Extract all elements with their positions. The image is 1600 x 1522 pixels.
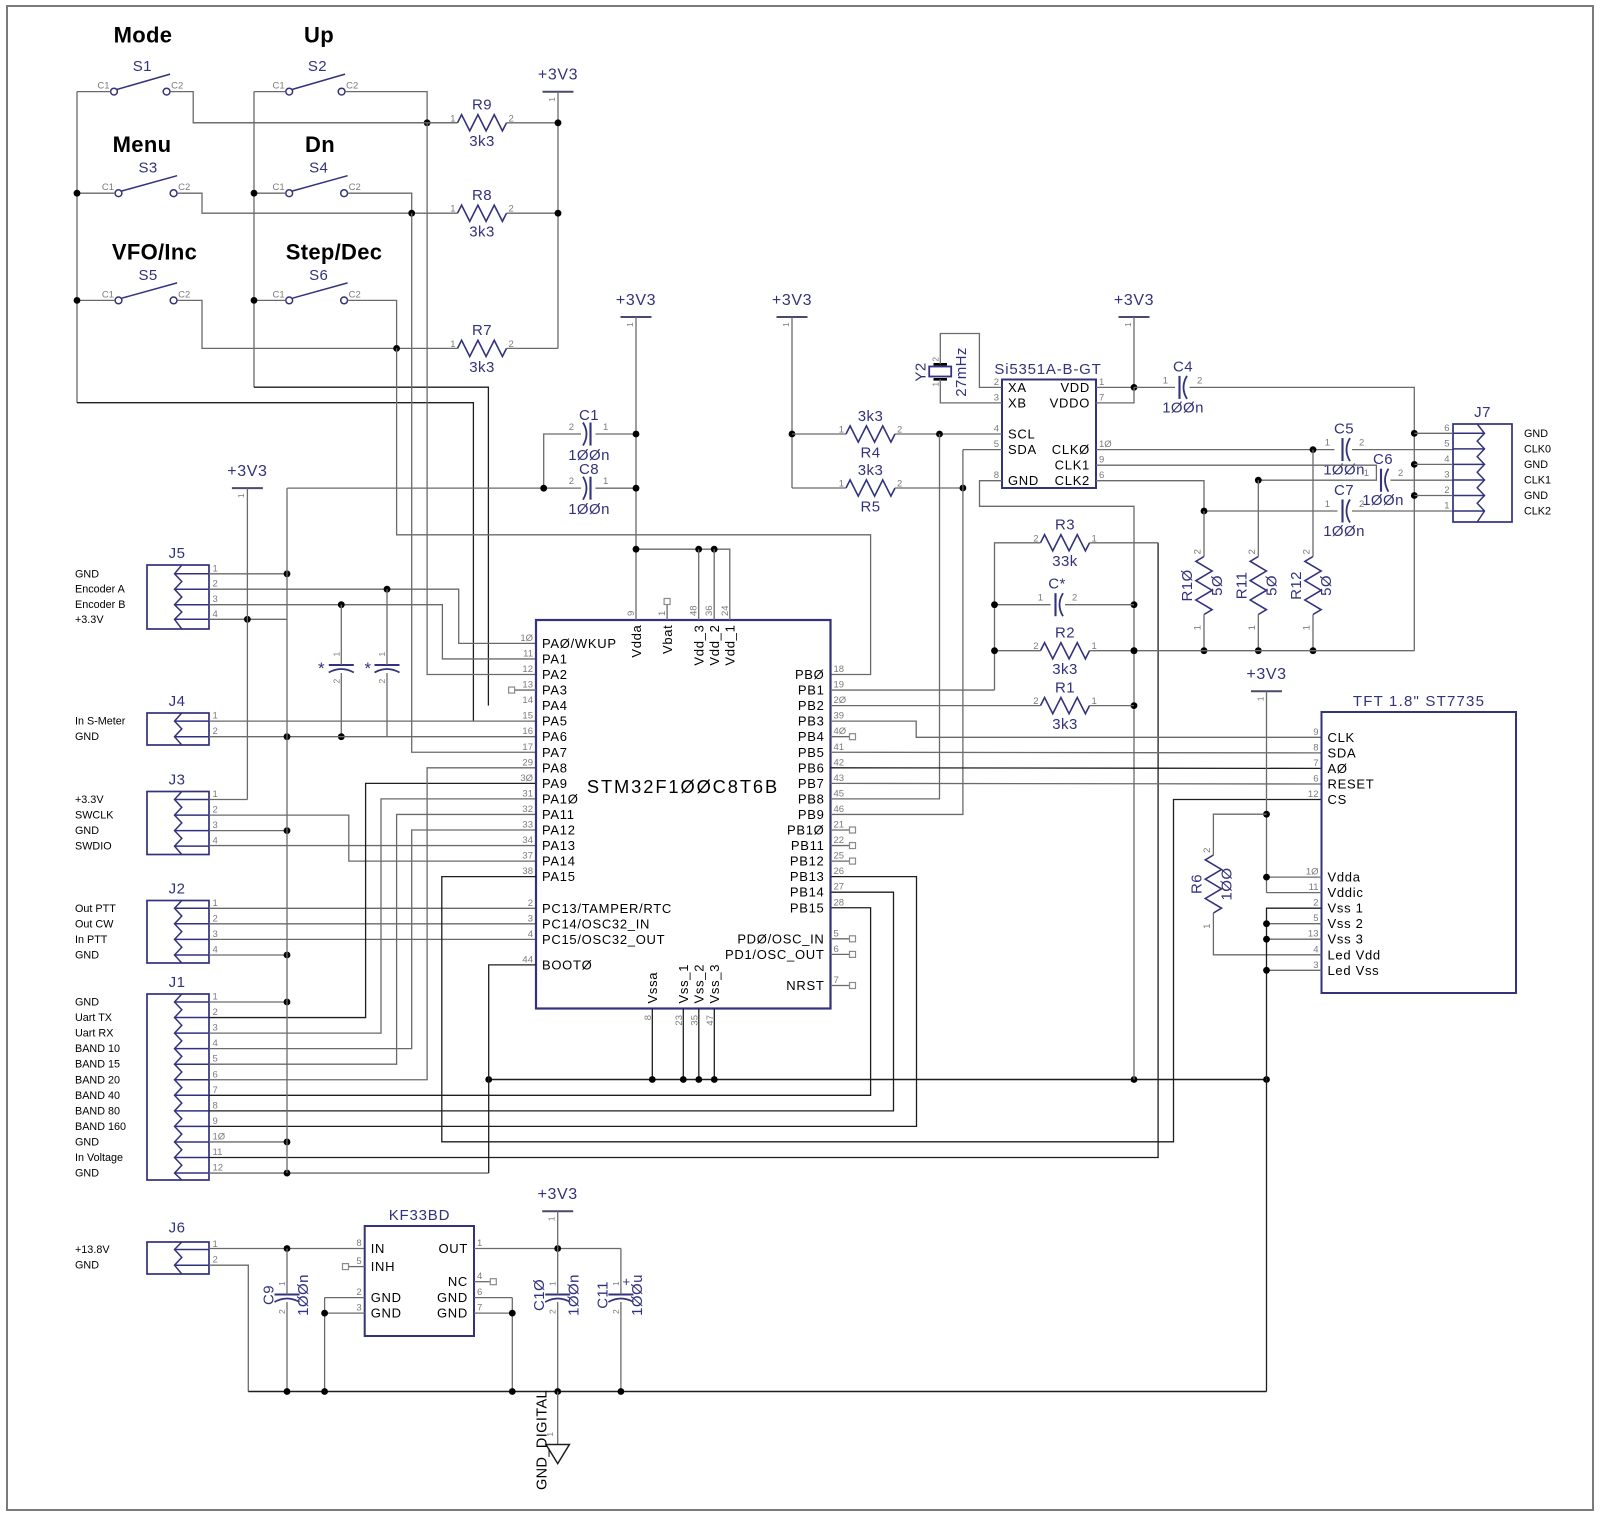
junction SCL / PB8 column bbox=[936, 431, 943, 438]
svg-text:GND: GND bbox=[75, 731, 99, 743]
junction GND column / R1 bbox=[1131, 702, 1138, 709]
svg-text:4: 4 bbox=[213, 1038, 218, 1049]
wire S4 C2 drop bbox=[348, 193, 412, 213]
wire SDA pin jog bbox=[963, 449, 1002, 451]
junction C7 row / R10 bbox=[1201, 508, 1208, 515]
svg-text:C2: C2 bbox=[171, 81, 183, 92]
svg-text:1: 1 bbox=[213, 898, 218, 909]
junction C1/+3V3 bbox=[633, 431, 640, 438]
svg-text:Vdd_2: Vdd_2 bbox=[707, 625, 722, 666]
svg-text:J6: J6 bbox=[169, 1220, 186, 1237]
svg-text:J7: J7 bbox=[1474, 404, 1491, 421]
svg-text:PA1: PA1 bbox=[542, 651, 568, 666]
junction +3V3/R9 bbox=[555, 119, 562, 126]
svg-text:Encoder B: Encoder B bbox=[75, 599, 125, 611]
wire J3 pin1 +3.3V bbox=[209, 799, 247, 801]
svg-text:BOOTØ: BOOTØ bbox=[542, 957, 592, 972]
svg-text:2: 2 bbox=[1359, 499, 1364, 510]
svg-text:Uart TX: Uart TX bbox=[75, 1012, 112, 1024]
junction IN / C9 bbox=[284, 1245, 291, 1252]
svg-text:SWDIO: SWDIO bbox=[75, 841, 112, 853]
svg-text:9: 9 bbox=[213, 1116, 218, 1127]
svg-text:PB7: PB7 bbox=[798, 776, 825, 791]
svg-text:PC13/TAMPER/RTC: PC13/TAMPER/RTC bbox=[542, 901, 672, 916]
svg-text:C2: C2 bbox=[178, 182, 190, 193]
svg-text:GND: GND bbox=[75, 568, 99, 580]
svg-text:PB14: PB14 bbox=[790, 885, 825, 900]
junction R10 / GND rail bbox=[1201, 647, 1208, 654]
svg-text:1: 1 bbox=[1202, 923, 1213, 929]
wire SWDIO to PA13 bbox=[209, 845, 536, 847]
svg-text:1: 1 bbox=[603, 476, 608, 487]
wire S1 C1 to column A bbox=[77, 91, 111, 93]
wire J7 pin2 GND bbox=[1414, 495, 1453, 497]
svg-text:R7: R7 bbox=[472, 322, 492, 339]
svg-text:3: 3 bbox=[1444, 470, 1449, 481]
wire KF GND3 bbox=[325, 1312, 365, 1314]
pin INH stub unconnected bbox=[349, 1266, 365, 1268]
svg-text:Vss_2: Vss_2 bbox=[692, 964, 707, 1004]
wire BAND 80 to PB14 bbox=[209, 892, 894, 1111]
svg-text:Step/Dec: Step/Dec bbox=[286, 239, 383, 264]
svg-text:Led Vdd: Led Vdd bbox=[1328, 947, 1381, 962]
wire Vss2 bbox=[1267, 923, 1322, 925]
svg-text:1ØØ: 1ØØ bbox=[1218, 868, 1235, 901]
svg-text:5: 5 bbox=[213, 1054, 218, 1065]
svg-text:1: 1 bbox=[547, 97, 557, 102]
wire Encoder B to PA1 bbox=[209, 605, 536, 659]
junction GND column / R2 bbox=[1131, 647, 1138, 654]
svg-text:C1: C1 bbox=[579, 407, 599, 424]
wire Vss_1 stub bbox=[682, 1009, 684, 1080]
wire J4 GND to PA6 row bbox=[209, 736, 536, 738]
svg-text:CLKØ: CLKØ bbox=[1052, 442, 1090, 457]
svg-text:4: 4 bbox=[1313, 944, 1318, 955]
wire SWCLK to PA14 bbox=[209, 815, 536, 861]
svg-text:7: 7 bbox=[834, 975, 839, 986]
wire J5 pin4 +3.3V bbox=[209, 618, 287, 620]
svg-text:32: 32 bbox=[522, 804, 533, 815]
wire R7 net to PB0 bbox=[397, 348, 871, 674]
svg-text:GND: GND bbox=[371, 1290, 402, 1305]
wire R5 row bbox=[792, 487, 846, 489]
wire S1 C2 to R9 row bbox=[170, 92, 457, 123]
wire Uart TX to PA9 bbox=[209, 783, 536, 1017]
svg-text:PB9: PB9 bbox=[798, 807, 825, 822]
svg-text:1ØØn: 1ØØn bbox=[1162, 399, 1204, 416]
svg-text:11: 11 bbox=[1309, 882, 1319, 893]
wire In Voltage to R3 bbox=[209, 543, 1158, 1158]
junction J1 pin10 / GND column bbox=[284, 1139, 291, 1146]
wire CLK0 row bbox=[1096, 449, 1335, 451]
svg-text:CLK0: CLK0 bbox=[1524, 443, 1551, 455]
svg-text:33: 33 bbox=[522, 820, 533, 831]
junction rail/C9 bbox=[284, 1388, 291, 1395]
svg-text:Vss_1: Vss_1 bbox=[676, 964, 691, 1004]
svg-text:IN: IN bbox=[371, 1241, 385, 1256]
svg-text:3: 3 bbox=[213, 594, 218, 605]
svg-text:1ØØn: 1ØØn bbox=[1362, 492, 1404, 509]
svg-text:7: 7 bbox=[1099, 392, 1104, 403]
svg-text:GND: GND bbox=[437, 1290, 468, 1305]
pin NC stub unconnected bbox=[474, 1281, 490, 1283]
svg-text:BAND 10: BAND 10 bbox=[75, 1043, 120, 1055]
svg-text:PB1Ø: PB1Ø bbox=[787, 823, 824, 838]
wire C* encB bottom bbox=[340, 673, 342, 737]
svg-text:S5: S5 bbox=[138, 267, 157, 284]
wire C8 pin2 row bbox=[287, 487, 581, 489]
svg-text:GND: GND bbox=[75, 997, 99, 1009]
svg-text:1Ø: 1Ø bbox=[1099, 439, 1112, 450]
svg-text:4Ø: 4Ø bbox=[834, 726, 847, 737]
svg-text:PA11: PA11 bbox=[542, 807, 575, 822]
svg-text:SDA: SDA bbox=[1328, 745, 1357, 760]
svg-text:29: 29 bbox=[522, 757, 533, 768]
junction R8 row / PA7 column bbox=[408, 210, 415, 217]
wire C10 bottom bbox=[557, 1302, 559, 1392]
junction OUT / +3V3 / C10 bbox=[554, 1245, 561, 1252]
svg-text:R11: R11 bbox=[1233, 572, 1250, 600]
svg-text:S6: S6 bbox=[309, 267, 328, 284]
svg-text:2: 2 bbox=[1444, 485, 1449, 496]
wire R6 pin2 bbox=[1213, 814, 1266, 855]
junction GND bus bbox=[711, 1076, 718, 1083]
wire R11 bottom bbox=[1257, 615, 1259, 651]
junction Vdd rail / Vdda bbox=[633, 546, 640, 553]
svg-text:PA8: PA8 bbox=[542, 760, 568, 775]
svg-text:+13.8V: +13.8V bbox=[75, 1244, 110, 1256]
svg-text:OUT: OUT bbox=[438, 1241, 468, 1256]
svg-text:C6: C6 bbox=[1373, 451, 1393, 468]
svg-text:+3V3: +3V3 bbox=[1114, 292, 1154, 309]
svg-text:1Ø: 1Ø bbox=[1306, 867, 1319, 878]
junction C6 row / R11 bbox=[1255, 477, 1262, 484]
svg-text:+3.3V: +3.3V bbox=[75, 794, 104, 806]
junction GND bus bbox=[1263, 1076, 1270, 1083]
junction C* encB / GND row bbox=[338, 733, 345, 740]
junction C*/PB1 node bbox=[991, 601, 998, 608]
svg-text:15: 15 bbox=[522, 711, 533, 722]
junction CLK0 / R12 bbox=[1310, 446, 1317, 453]
svg-text:1ØØn: 1ØØn bbox=[566, 1274, 583, 1316]
wire R12 top bbox=[1312, 450, 1314, 557]
wire BAND 40 to PB15 bbox=[209, 908, 871, 1096]
pin PD1 stub unconnected bbox=[831, 953, 850, 955]
svg-text:XB: XB bbox=[1008, 395, 1027, 410]
svg-text:1Ø: 1Ø bbox=[213, 1131, 226, 1142]
svg-text:R2: R2 bbox=[1055, 625, 1075, 642]
wire Vssa stub bbox=[651, 1009, 653, 1080]
wire S2 C2 drop bbox=[345, 92, 427, 123]
svg-text:Uart RX: Uart RX bbox=[75, 1028, 113, 1040]
junction R11 / GND rail bbox=[1255, 647, 1262, 654]
junction GND bus bbox=[695, 1076, 702, 1083]
svg-text:Vss 2: Vss 2 bbox=[1328, 916, 1364, 931]
capacitor C5 bbox=[1341, 438, 1343, 461]
svg-text:3: 3 bbox=[213, 1023, 218, 1034]
svg-text:2: 2 bbox=[377, 678, 387, 683]
switch S5 bbox=[115, 297, 122, 304]
capacitor C6 bbox=[1380, 469, 1382, 492]
junction column B / S6 bbox=[251, 297, 258, 304]
svg-text:2: 2 bbox=[1193, 549, 1204, 555]
svg-text:VDD: VDD bbox=[1060, 380, 1090, 395]
svg-text:1: 1 bbox=[545, 1431, 555, 1436]
capacitor C10 bbox=[545, 1293, 570, 1295]
IC U2 Si5351A-B-GT box bbox=[1002, 380, 1096, 489]
junction GND vert / J7 pin2 bbox=[1411, 492, 1418, 499]
svg-text:6: 6 bbox=[1099, 470, 1104, 481]
svg-text:C1: C1 bbox=[97, 81, 109, 92]
capacitor C4 bbox=[1178, 376, 1180, 399]
wire PB7 to TFT RESET bbox=[831, 782, 1322, 785]
svg-text:C9: C9 bbox=[261, 1285, 278, 1305]
switch S2 bbox=[286, 88, 293, 95]
svg-text:34: 34 bbox=[522, 835, 533, 846]
svg-text:2: 2 bbox=[994, 377, 999, 388]
connector J6 bbox=[147, 1242, 209, 1274]
svg-text:25: 25 bbox=[834, 851, 845, 862]
wire column A to PA5 column bbox=[77, 403, 473, 721]
svg-text:C1: C1 bbox=[273, 289, 285, 300]
wire J6 pin1 to IN bbox=[209, 1248, 365, 1250]
junction R5 / SDA column bbox=[960, 485, 967, 492]
svg-text:6: 6 bbox=[477, 1287, 482, 1298]
svg-text:PA1Ø: PA1Ø bbox=[542, 791, 579, 806]
pin PB11 stub unconnected bbox=[831, 845, 850, 847]
svg-text:31: 31 bbox=[522, 788, 533, 799]
wire Vss_2 stub bbox=[698, 1009, 700, 1080]
wire C10 top bbox=[557, 1249, 559, 1295]
wire J1 GND pin10 bbox=[209, 1141, 287, 1143]
svg-text:Dn: Dn bbox=[305, 132, 335, 157]
svg-text:2: 2 bbox=[569, 422, 574, 433]
capacitor C9 bbox=[275, 1293, 300, 1295]
svg-text:BAND 20: BAND 20 bbox=[75, 1074, 120, 1086]
junction column B / S4 bbox=[251, 190, 258, 197]
wire R5 pin2 bbox=[895, 487, 963, 489]
wire C4 pin1 bbox=[1134, 386, 1175, 388]
svg-text:PA15: PA15 bbox=[542, 869, 576, 884]
svg-text:1: 1 bbox=[331, 651, 341, 656]
wire BAND 15 to PA11 bbox=[209, 814, 536, 1064]
wire BOOT0 to GND bus bbox=[489, 965, 536, 1173]
wire J5 pin1 GND bbox=[209, 573, 287, 575]
IC U1 STM32F100C8T6B box bbox=[536, 620, 831, 1009]
wire PB3 to TFT CLK bbox=[831, 721, 1322, 737]
junction rail/KF-right bbox=[509, 1388, 516, 1395]
svg-text:14: 14 bbox=[522, 695, 533, 706]
pin PB12 stub unconnected bbox=[831, 860, 850, 862]
svg-text:5Ø: 5Ø bbox=[1209, 575, 1226, 596]
svg-text:1: 1 bbox=[1325, 438, 1330, 449]
svg-text:3k3: 3k3 bbox=[1052, 716, 1077, 733]
svg-text:42: 42 bbox=[834, 757, 845, 768]
wire +3V3 TFT stem bbox=[1266, 691, 1268, 892]
junction KF GND7 right bbox=[509, 1310, 516, 1317]
wire R12 bottom bbox=[1312, 615, 1314, 651]
wire VDDO jog bbox=[1096, 387, 1134, 403]
pin PA3 stub unconnected bbox=[515, 689, 536, 691]
svg-text:CLK1: CLK1 bbox=[1524, 475, 1551, 487]
svg-text:Vdd_1: Vdd_1 bbox=[723, 625, 738, 666]
junction C8/+3V3 bbox=[633, 485, 640, 492]
svg-text:PBØ: PBØ bbox=[795, 667, 825, 682]
wire KF GND7 bbox=[474, 1312, 512, 1314]
svg-text:9: 9 bbox=[1313, 727, 1318, 738]
svg-text:STM32F1ØØC8T6B: STM32F1ØØC8T6B bbox=[587, 776, 779, 797]
resistor R12 bbox=[1305, 557, 1321, 615]
junction Vdd rail / Vdd_2 bbox=[711, 546, 718, 553]
svg-text:1: 1 bbox=[236, 493, 246, 498]
svg-text:1: 1 bbox=[931, 381, 941, 386]
svg-text:CLK: CLK bbox=[1328, 730, 1355, 745]
wire SCL to PB8 bbox=[831, 434, 940, 799]
capacitor C7 bbox=[1341, 500, 1343, 523]
svg-text:PB11: PB11 bbox=[791, 838, 825, 853]
svg-text:BAND 160: BAND 160 bbox=[75, 1121, 126, 1133]
svg-text:Mode: Mode bbox=[114, 23, 173, 48]
svg-text:+3.3V: +3.3V bbox=[75, 614, 104, 626]
resistor R9 bbox=[458, 115, 507, 131]
connector J5 bbox=[147, 565, 209, 629]
wire R9 pin2 to +3V3 bbox=[507, 122, 559, 124]
switch S3 bbox=[115, 190, 122, 197]
svg-text:8: 8 bbox=[356, 1238, 361, 1249]
resistor R8 bbox=[458, 205, 507, 221]
svg-text:C4: C4 bbox=[1173, 358, 1193, 375]
wire Encoder A to PA0 bbox=[209, 589, 536, 643]
wire C6 pin2 to J7-3 bbox=[1391, 479, 1454, 481]
wire C6 pin1 row bbox=[1258, 479, 1377, 481]
svg-text:C7: C7 bbox=[1334, 482, 1354, 499]
svg-text:KF33BD: KF33BD bbox=[389, 1207, 451, 1224]
svg-text:PB15: PB15 bbox=[790, 900, 825, 915]
svg-text:1: 1 bbox=[277, 1281, 287, 1286]
junction R9 row / PA2 column bbox=[424, 119, 431, 126]
wire R6 pin1 to Led Vdd bbox=[1213, 913, 1321, 955]
svg-text:PB4: PB4 bbox=[798, 729, 825, 744]
svg-text:38: 38 bbox=[522, 866, 533, 877]
svg-text:1: 1 bbox=[1247, 625, 1258, 631]
svg-text:2: 2 bbox=[1398, 468, 1403, 479]
svg-text:2: 2 bbox=[277, 1309, 287, 1314]
wire In S-Meter to PA5 bbox=[209, 720, 536, 722]
junction GND/Vss2 bbox=[1263, 920, 1270, 927]
wire PA15 to TFT CS bbox=[442, 800, 1322, 1142]
svg-text:VFO/Inc: VFO/Inc bbox=[112, 239, 197, 264]
svg-text:5: 5 bbox=[1444, 438, 1449, 449]
svg-text:1ØØu: 1ØØu bbox=[629, 1274, 646, 1316]
svg-text:33k: 33k bbox=[1052, 553, 1077, 570]
wire C11 top bbox=[620, 1249, 622, 1295]
svg-text:GND: GND bbox=[75, 1168, 99, 1180]
svg-text:3Ø: 3Ø bbox=[520, 773, 533, 784]
wire PB1 to divider bbox=[831, 689, 995, 691]
svg-text:1: 1 bbox=[603, 422, 608, 433]
svg-text:+: + bbox=[623, 1274, 631, 1289]
svg-text:Vdda: Vdda bbox=[629, 624, 644, 657]
pin PD0 stub unconnected bbox=[831, 938, 850, 940]
junction J2 GND / GND column bbox=[284, 952, 291, 959]
svg-text:2: 2 bbox=[528, 898, 533, 909]
wire Led Vss bbox=[1267, 969, 1322, 971]
svg-text:R1Ø: R1Ø bbox=[1179, 569, 1196, 601]
wire Vss3 bbox=[1267, 938, 1322, 940]
svg-text:+3V3: +3V3 bbox=[772, 292, 812, 309]
svg-text:R12: R12 bbox=[1288, 571, 1305, 600]
junction Vdd rail / Vdd_3 bbox=[695, 546, 702, 553]
svg-text:Out CW: Out CW bbox=[75, 918, 114, 930]
svg-text:*: * bbox=[318, 659, 325, 678]
pin Vbat stub unconnected bbox=[666, 605, 668, 621]
resistor R1 bbox=[1041, 698, 1090, 714]
svg-text:GND: GND bbox=[1008, 473, 1039, 488]
svg-text:2Ø: 2Ø bbox=[834, 695, 847, 706]
svg-text:Si5351A-B-GT: Si5351A-B-GT bbox=[994, 361, 1101, 378]
svg-text:45: 45 bbox=[834, 788, 845, 799]
svg-text:PAØ/WKUP: PAØ/WKUP bbox=[542, 636, 617, 651]
wire J7 pin6 GND bbox=[1414, 432, 1453, 434]
wire R11 top bbox=[1257, 480, 1259, 556]
junction J5 pin1 / GND column bbox=[284, 570, 291, 577]
wire Y2 pin1 to XB bbox=[940, 379, 1002, 403]
svg-text:6: 6 bbox=[213, 1069, 218, 1080]
svg-text:CS: CS bbox=[1328, 792, 1347, 807]
svg-text:27: 27 bbox=[834, 882, 845, 893]
svg-text:3k3: 3k3 bbox=[469, 359, 494, 376]
svg-text:PB6: PB6 bbox=[798, 760, 825, 775]
svg-text:PB8: PB8 bbox=[798, 791, 825, 806]
wire Si GND pin8 route bbox=[980, 481, 1135, 1080]
svg-text:27mHz: 27mHz bbox=[953, 347, 970, 397]
svg-text:C2: C2 bbox=[178, 289, 190, 300]
wire C* pin1 bbox=[995, 604, 1051, 606]
svg-text:1ØØn: 1ØØn bbox=[1323, 462, 1365, 479]
junction +3V3/R8 bbox=[555, 210, 562, 217]
junction R12 / GND rail bbox=[1310, 647, 1317, 654]
svg-text:NRST: NRST bbox=[786, 978, 824, 993]
capacitor C* enc A bbox=[375, 664, 400, 666]
switch S6 bbox=[286, 297, 293, 304]
svg-text:In S-Meter: In S-Meter bbox=[75, 716, 126, 728]
svg-text:C1: C1 bbox=[273, 81, 285, 92]
svg-text:1: 1 bbox=[213, 992, 218, 1003]
svg-text:43: 43 bbox=[834, 773, 845, 784]
junction Encoder B / C* cap1 bbox=[338, 601, 345, 608]
svg-text:2: 2 bbox=[611, 1309, 621, 1314]
svg-text:C11: C11 bbox=[594, 1281, 611, 1309]
svg-text:PD1/OSC_OUT: PD1/OSC_OUT bbox=[725, 947, 824, 962]
capacitor C11 polarized bbox=[608, 1293, 633, 1295]
svg-text:1Ø: 1Ø bbox=[520, 633, 533, 644]
junction rail/C11 bbox=[618, 1388, 625, 1395]
svg-text:2: 2 bbox=[1359, 438, 1364, 449]
junction column A / S3 bbox=[74, 190, 81, 197]
svg-text:2: 2 bbox=[213, 579, 218, 590]
svg-text:Vssa: Vssa bbox=[645, 972, 660, 1004]
wire S3 C1 to column A bbox=[77, 192, 115, 194]
svg-text:1: 1 bbox=[547, 1216, 557, 1221]
svg-text:5: 5 bbox=[1313, 913, 1318, 924]
svg-text:5Ø: 5Ø bbox=[1263, 575, 1280, 596]
wire C1 pin1 bbox=[596, 433, 637, 435]
wire J7 pin4 GND bbox=[1414, 463, 1453, 465]
svg-text:PA9: PA9 bbox=[542, 776, 568, 791]
junction GND vert / J7 pin4 bbox=[1411, 461, 1418, 468]
svg-text:Vdda: Vdda bbox=[1328, 870, 1361, 885]
svg-text:PA14: PA14 bbox=[542, 854, 576, 869]
